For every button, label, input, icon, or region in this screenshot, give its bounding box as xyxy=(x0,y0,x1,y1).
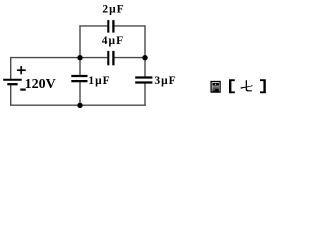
svg-text:2μF: 2μF xyxy=(102,4,123,16)
capacitor C4 3uF plates (right branch) xyxy=(135,78,152,83)
node A junction dot (left) xyxy=(77,55,82,60)
label 2uF xyxy=(102,4,123,16)
battery minus sign xyxy=(20,88,25,90)
wire: top branch right segment (C1 right plate to right corner) xyxy=(114,25,145,27)
wire: 1uF branch lower (C3 bottom plate down to bottom node) xyxy=(79,82,81,105)
wire: right vertical lower (C4 bottom plate to bottom right corner) xyxy=(144,84,146,106)
label 120V xyxy=(25,77,56,92)
caption glyph: right lenticular bracket xyxy=(260,79,266,93)
wire: top branch left segment (corner to C1 left plate) xyxy=(79,25,107,27)
caption glyph: CJK character QI (seven) drawn as strokes xyxy=(241,80,253,91)
wire: left vertical lower (battery - plate down to bottom corner) xyxy=(10,85,12,105)
label 4uF xyxy=(102,35,123,47)
wire: 4uF branch right segment (C2 right plate to node B) xyxy=(114,57,145,59)
label 3uF xyxy=(154,75,175,87)
caption glyph: left lenticular bracket xyxy=(229,79,235,93)
svg-text:4μF: 4μF xyxy=(102,35,123,47)
battery V1 plates xyxy=(3,80,22,84)
svg-text:120V: 120V xyxy=(25,77,56,92)
svg-text:1μF: 1μF xyxy=(88,75,109,87)
label 1uF xyxy=(88,75,109,87)
capacitor C3 1uF plates (middle vertical branch) xyxy=(71,76,87,81)
svg-text:3μF: 3μF xyxy=(154,75,175,87)
wire: 1uF branch upper (node A down to C3 top plate) xyxy=(79,58,81,76)
capacitor C2 4uF plates (middle branch) xyxy=(108,51,113,65)
node B junction dot (right) xyxy=(142,55,147,60)
capacitor C1 2uF plates (top branch) xyxy=(108,20,113,32)
wire: inner loop left vertical (node A up to top branch) xyxy=(79,26,81,58)
bottom junction dot xyxy=(77,103,82,108)
battery plus sign xyxy=(17,66,26,74)
wire: left vertical upper (corner down to battery + plate) xyxy=(10,58,12,80)
wire: middle horizontal, battery loop top, from left corner to node A xyxy=(10,57,80,59)
wire: 4uF branch left segment (node A to C2 left plate) xyxy=(80,57,107,59)
wire: right vertical upper (top corner down through node B to C4 top plate) xyxy=(144,26,146,77)
caption glyph: CJK character TU (picture) drawn as shapes xyxy=(211,82,220,93)
wire: bottom horizontal xyxy=(10,104,146,106)
